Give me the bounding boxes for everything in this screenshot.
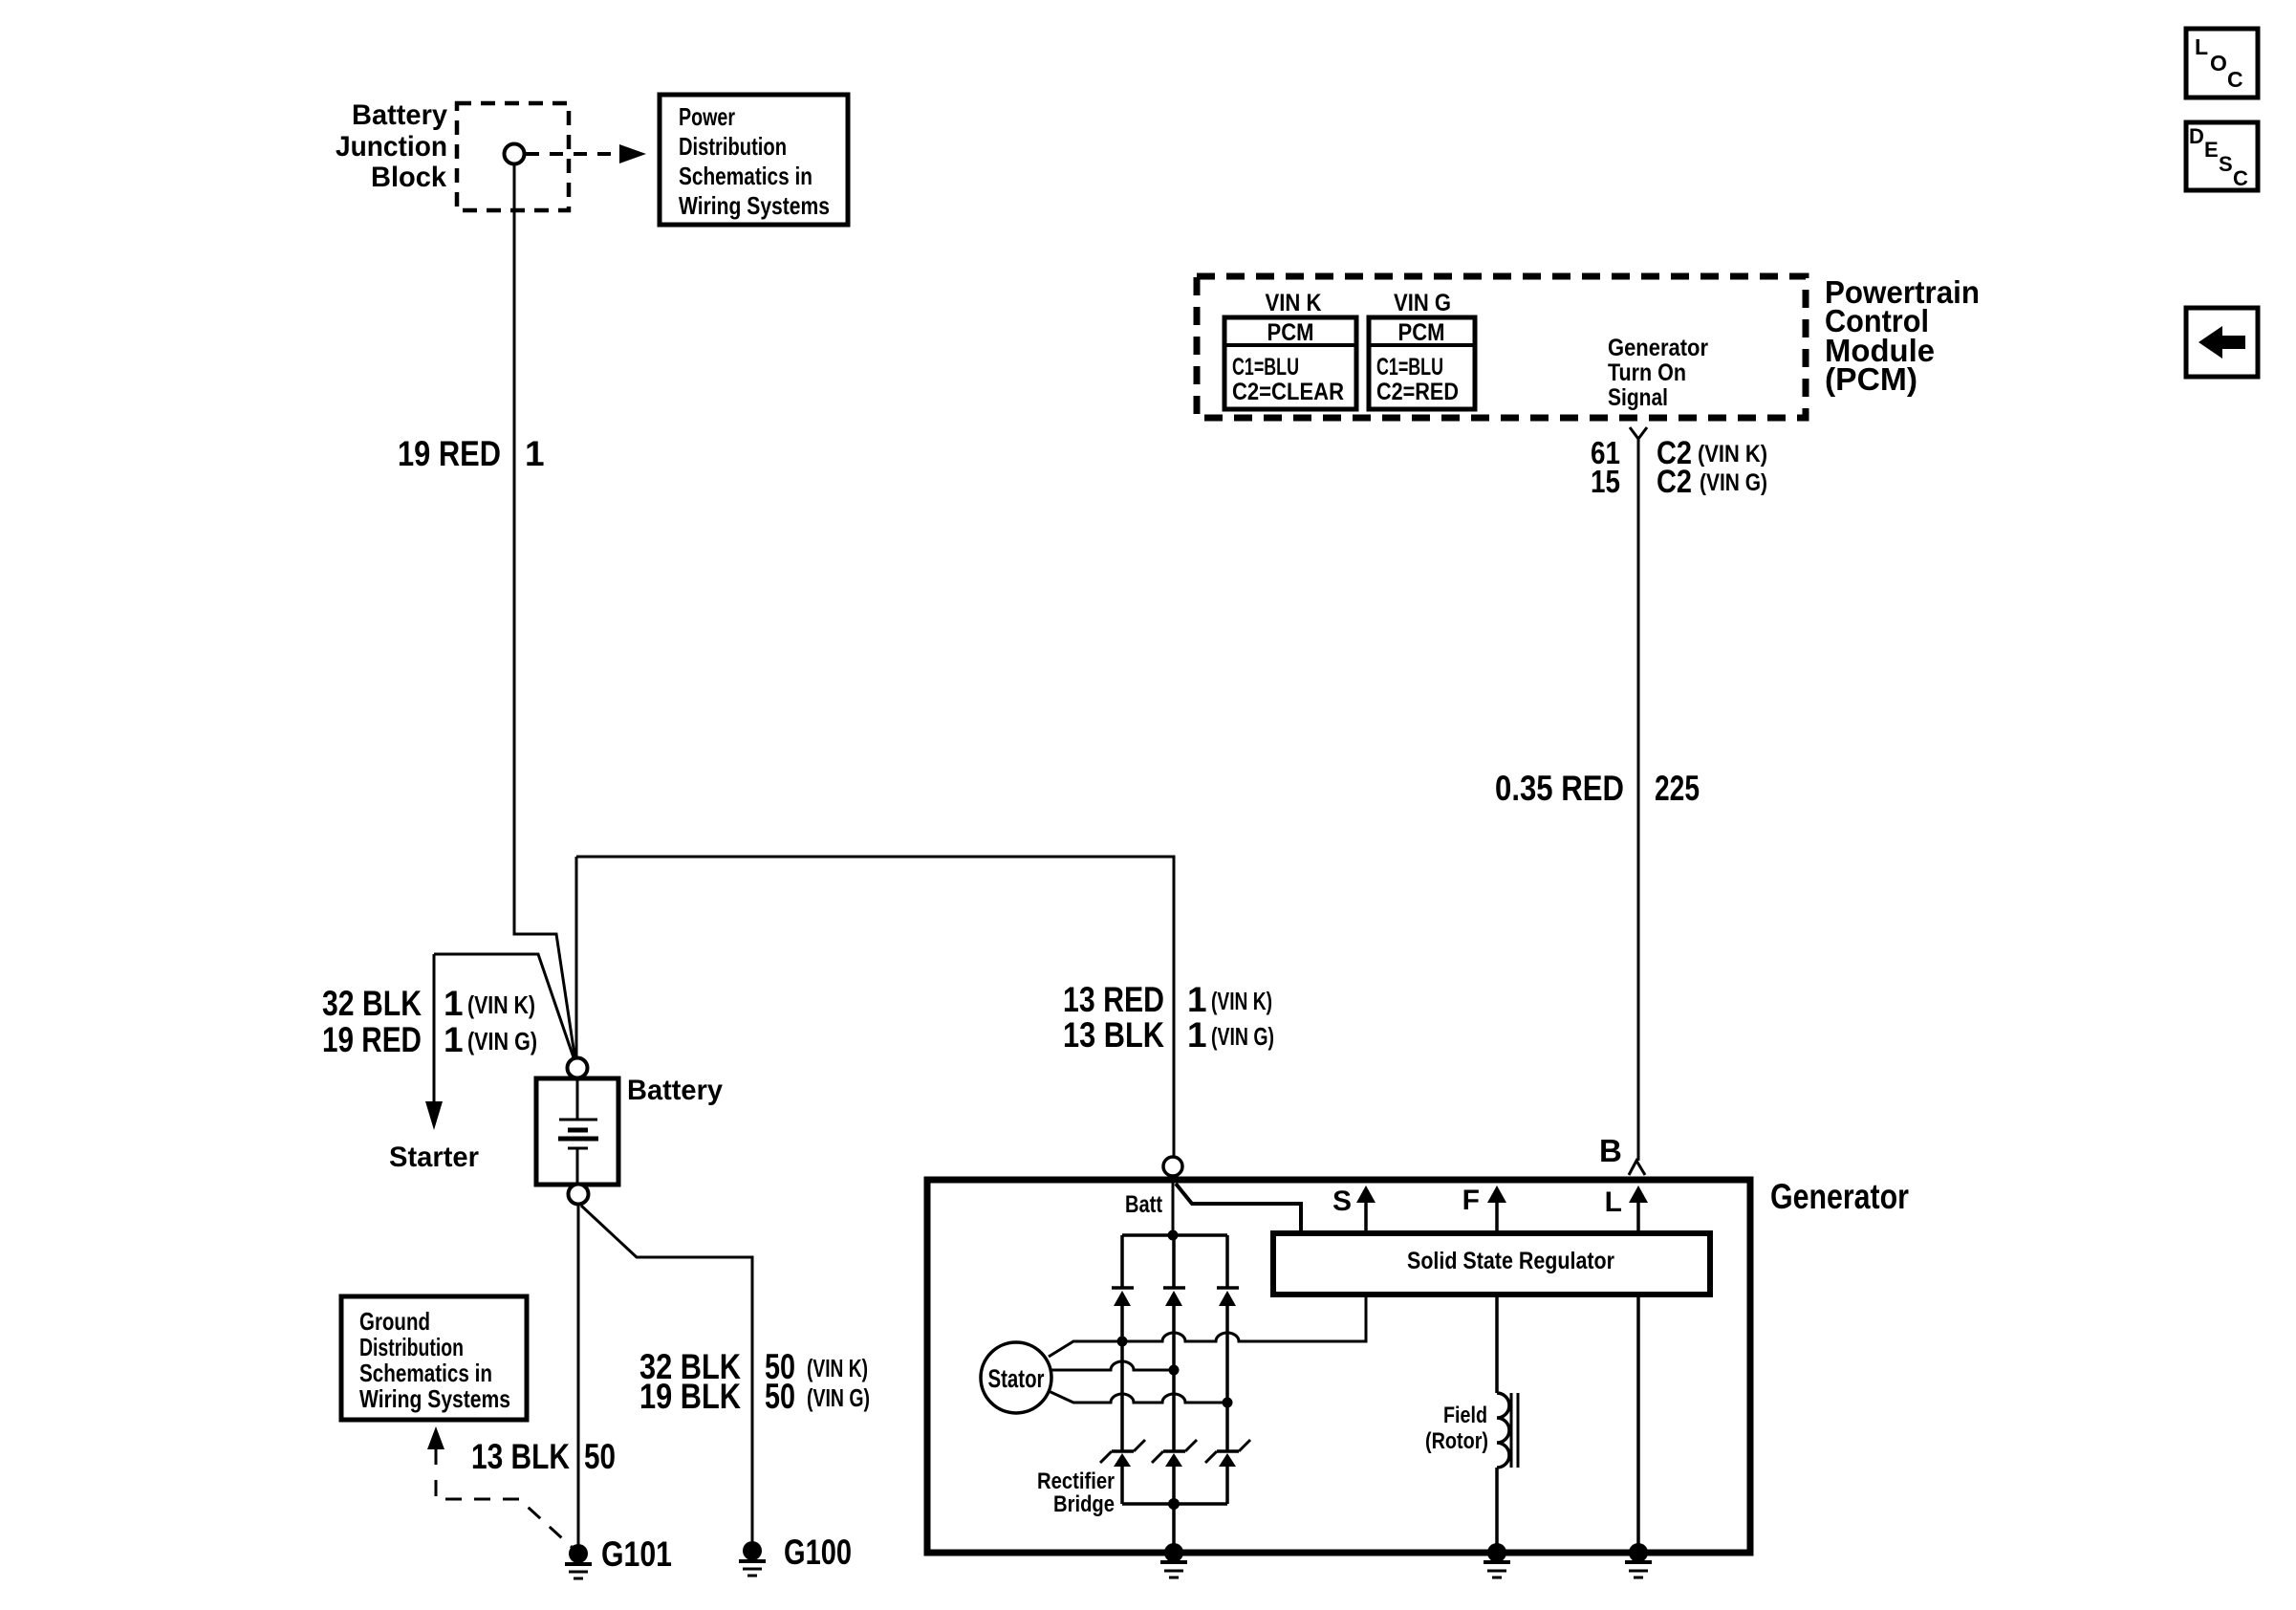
svg-text:(VIN K): (VIN K) bbox=[807, 1354, 868, 1382]
svg-text:19 RED: 19 RED bbox=[322, 1020, 422, 1059]
wire: stator phase B bbox=[1051, 1361, 1174, 1370]
wire: stator phase A bbox=[1049, 1295, 1366, 1357]
label: 0.35 RED 225 bbox=[1495, 769, 1700, 808]
svg-text:Solid State Regulator: Solid State Regulator bbox=[1407, 1248, 1614, 1274]
label: 32 BLK 1 (VIN K) bbox=[322, 984, 535, 1023]
svg-text:G101: G101 bbox=[601, 1534, 672, 1574]
svg-text:Wiring Systems: Wiring Systems bbox=[679, 191, 830, 220]
label: 13 BLK 50 bbox=[471, 1437, 616, 1476]
svg-text:1: 1 bbox=[1187, 980, 1207, 1019]
svg-text:Stator: Stator bbox=[988, 1364, 1045, 1393]
zener diode Z3 bbox=[1205, 1440, 1250, 1467]
svg-text:1: 1 bbox=[444, 984, 464, 1023]
diode D2 bbox=[1163, 1288, 1185, 1306]
icon: DESC bbox=[2186, 122, 2258, 190]
node: generator Batt terminal bbox=[1163, 1157, 1182, 1176]
svg-text:(VIN G): (VIN G) bbox=[1211, 1022, 1274, 1051]
label: Generator Turn On Signal bbox=[1608, 335, 1708, 411]
svg-text:D: D bbox=[2189, 124, 2204, 148]
svg-text:Turn On: Turn On bbox=[1608, 359, 1686, 386]
label bracket: battery cable codes bbox=[434, 954, 575, 1063]
wire: battery negative to G101 bbox=[577, 1205, 580, 1545]
svg-text:(VIN G): (VIN G) bbox=[1700, 469, 1767, 496]
svg-text:Starter: Starter bbox=[389, 1142, 479, 1173]
svg-text:S: S bbox=[1332, 1186, 1352, 1217]
svg-text:(VIN K): (VIN K) bbox=[467, 990, 535, 1019]
svg-text:Distribution: Distribution bbox=[679, 132, 787, 161]
svg-text:(Rotor): (Rotor) bbox=[1425, 1428, 1488, 1454]
svg-text:Battery: Battery bbox=[352, 99, 447, 131]
wire: stator phase C bbox=[1049, 1391, 1227, 1403]
dashed leader to power distribution note bbox=[526, 144, 646, 163]
dashed leader from G101 to ground distribution note (arrowhead) bbox=[427, 1426, 572, 1547]
wire: rectifier negative rail bbox=[1122, 1502, 1227, 1506]
svg-text:Signal: Signal bbox=[1608, 384, 1668, 411]
node: battery junction block stud bbox=[505, 144, 525, 164]
connector table: PCM VIN G bbox=[1369, 317, 1475, 409]
battery B1 bbox=[536, 1078, 618, 1185]
ground G101 bbox=[565, 1544, 592, 1578]
svg-text:Battery: Battery bbox=[627, 1075, 723, 1106]
svg-text:Generator: Generator bbox=[1770, 1177, 1909, 1216]
label: Rectifier Bridge bbox=[1037, 1469, 1115, 1517]
svg-text:32 BLK: 32 BLK bbox=[322, 984, 422, 1023]
wire: column 1 to phase A bbox=[1120, 1306, 1124, 1341]
wire: column 3 to negative rail bbox=[1225, 1467, 1229, 1504]
svg-text:C2: C2 bbox=[1657, 464, 1692, 500]
svg-text:C1=BLU: C1=BLU bbox=[1232, 354, 1299, 381]
icon: LOC bbox=[2186, 29, 2258, 98]
svg-text:(VIN K): (VIN K) bbox=[1698, 441, 1767, 468]
wire: 19 RED from junction block to battery bbox=[514, 163, 575, 1061]
label: 13 RED 1 (VIN K) bbox=[1063, 980, 1272, 1019]
svg-text:Junction: Junction bbox=[336, 131, 447, 163]
svg-text:F: F bbox=[1462, 1185, 1480, 1216]
wire: rectifier to generator case ground bbox=[1172, 1504, 1176, 1553]
wire: column 2 lower bbox=[1172, 1370, 1176, 1451]
label: 19 RED 1 bbox=[398, 434, 545, 473]
svg-text:Generator: Generator bbox=[1608, 335, 1708, 361]
svg-text:C: C bbox=[2227, 67, 2243, 92]
svg-text:1: 1 bbox=[1187, 1015, 1207, 1055]
label: 19 BLK 50 (VIN G) bbox=[639, 1377, 870, 1416]
wire: 0.35 RED generator turn on signal bbox=[1637, 439, 1640, 1161]
wire: column 2 to phase B bbox=[1172, 1306, 1176, 1370]
svg-text:B: B bbox=[1599, 1133, 1622, 1168]
svg-text:Schematics in: Schematics in bbox=[679, 162, 812, 190]
svg-text:C1=BLU: C1=BLU bbox=[1376, 354, 1443, 381]
svg-text:(VIN G): (VIN G) bbox=[467, 1027, 537, 1055]
svg-text:Field: Field bbox=[1443, 1403, 1487, 1428]
field rotor coil L1 bbox=[1497, 1393, 1518, 1468]
wire: rectifier column 2 upper bbox=[1172, 1235, 1176, 1288]
svg-text:C2=RED: C2=RED bbox=[1376, 379, 1459, 405]
S input arrow bbox=[1356, 1186, 1375, 1233]
svg-text:Wiring Systems: Wiring Systems bbox=[359, 1384, 510, 1413]
label: 13 BLK 1 (VIN G) bbox=[1063, 1015, 1274, 1055]
svg-text:(VIN K): (VIN K) bbox=[1211, 987, 1272, 1015]
note box: Ground Distribution Schematics in Wiring Systems bbox=[341, 1296, 527, 1420]
svg-text:O: O bbox=[2210, 51, 2227, 76]
L input arrow bbox=[1629, 1186, 1648, 1233]
svg-text:19 RED: 19 RED bbox=[398, 434, 501, 473]
svg-text:225: 225 bbox=[1655, 769, 1700, 808]
ground G100 bbox=[739, 1541, 766, 1576]
svg-text:13 RED: 13 RED bbox=[1063, 980, 1164, 1019]
ground: rectifier case bbox=[1160, 1543, 1187, 1577]
solid state regulator U1 bbox=[1273, 1233, 1710, 1295]
label: Battery Junction Block bbox=[336, 99, 447, 193]
wire: Batt feed into rectifier bbox=[1172, 1176, 1175, 1235]
svg-text:Distribution: Distribution bbox=[359, 1333, 464, 1361]
wire: field coil to ground bbox=[1495, 1468, 1499, 1553]
ground: regulator case bbox=[1625, 1543, 1652, 1577]
svg-text:1: 1 bbox=[525, 434, 545, 473]
note box: Power Distribution Schematics in Wiring Systems bbox=[660, 95, 848, 225]
powertrain control module PCM (dashed box) bbox=[1197, 276, 1806, 418]
node: phase A to column 1 bbox=[1117, 1337, 1128, 1347]
diode D1 bbox=[1112, 1288, 1134, 1306]
wire: battery positive drop bbox=[575, 857, 578, 1058]
svg-text:C: C bbox=[2233, 166, 2248, 190]
wire: regulator F output to field bbox=[1495, 1295, 1499, 1393]
node: rectifier positive rail junction bbox=[1168, 1230, 1179, 1241]
svg-text:Block: Block bbox=[371, 162, 446, 193]
wire: rectifier column 3 upper bbox=[1225, 1235, 1229, 1288]
svg-text:1: 1 bbox=[444, 1020, 464, 1059]
wire: rectifier column 1 upper bbox=[1120, 1235, 1124, 1288]
ground: field coil case bbox=[1484, 1543, 1510, 1577]
label: Field (Rotor) bbox=[1425, 1403, 1488, 1454]
pin label: 61 C2 (VIN K) bbox=[1591, 435, 1767, 471]
svg-text:VIN K: VIN K bbox=[1266, 290, 1322, 316]
wire: rectifier positive rail bbox=[1122, 1233, 1227, 1237]
label: 32 BLK 50 (VIN K) bbox=[639, 1347, 868, 1386]
svg-text:Ground: Ground bbox=[359, 1307, 430, 1336]
svg-text:S: S bbox=[2219, 152, 2233, 176]
wire: 13 RED battery to generator Batt bbox=[576, 857, 1174, 1157]
wire: column 3 lower bbox=[1225, 1403, 1229, 1451]
F input arrow bbox=[1487, 1186, 1506, 1233]
node: battery positive terminal bbox=[568, 1058, 588, 1078]
svg-text:Bridge: Bridge bbox=[1053, 1491, 1115, 1517]
svg-text:L: L bbox=[1605, 1186, 1622, 1218]
wire: battery negative to G100 bbox=[581, 1206, 752, 1542]
svg-text:19 BLK: 19 BLK bbox=[639, 1377, 741, 1416]
icon: back arrow bbox=[2186, 308, 2258, 377]
svg-text:50: 50 bbox=[584, 1437, 616, 1476]
wire: column 1 lower bbox=[1120, 1341, 1124, 1451]
connector: generator B terminal (chevron) bbox=[1629, 1161, 1645, 1175]
wire: column 1 to negative rail bbox=[1120, 1467, 1124, 1504]
svg-text:E: E bbox=[2204, 138, 2219, 162]
svg-text:Rectifier: Rectifier bbox=[1037, 1469, 1115, 1494]
svg-text:G100: G100 bbox=[784, 1533, 852, 1572]
label: 19 RED 1 (VIN G) bbox=[322, 1020, 537, 1059]
wire: column 2 to negative rail bbox=[1172, 1467, 1176, 1504]
stator bbox=[981, 1342, 1051, 1413]
svg-text:(PCM): (PCM) bbox=[1825, 361, 1917, 397]
svg-text:50: 50 bbox=[765, 1377, 795, 1416]
connector: PCM C2 pin (Y symbol) bbox=[1630, 427, 1647, 439]
node: phase B to column 2 bbox=[1169, 1365, 1180, 1376]
wire: regulator L to ground bbox=[1636, 1295, 1640, 1553]
pin label: 15 C2 (VIN G) bbox=[1591, 464, 1767, 500]
svg-text:L: L bbox=[2195, 34, 2208, 59]
svg-text:(VIN G): (VIN G) bbox=[807, 1383, 870, 1412]
svg-text:PCM: PCM bbox=[1398, 319, 1445, 346]
wire arrow to starter bbox=[425, 954, 443, 1130]
diode D3 bbox=[1217, 1288, 1239, 1306]
svg-text:Power: Power bbox=[679, 102, 735, 131]
wire: Batt to regulator bbox=[1176, 1184, 1301, 1233]
svg-text:15: 15 bbox=[1591, 464, 1620, 499]
node: phase C to column 3 bbox=[1223, 1398, 1233, 1408]
node: negative rail junction bbox=[1168, 1498, 1180, 1510]
svg-text:Schematics in: Schematics in bbox=[359, 1359, 492, 1387]
svg-text:PCM: PCM bbox=[1267, 319, 1314, 346]
wire: column 3 to phase C bbox=[1225, 1306, 1229, 1403]
zener diode Z1 bbox=[1100, 1440, 1145, 1467]
zener diode Z2 bbox=[1152, 1440, 1197, 1467]
battery junction block (dashed box) bbox=[457, 103, 569, 210]
node: battery negative terminal bbox=[569, 1185, 589, 1205]
generator box bbox=[927, 1180, 1750, 1553]
svg-text:C2=CLEAR: C2=CLEAR bbox=[1232, 379, 1344, 405]
svg-text:13 BLK: 13 BLK bbox=[1063, 1015, 1164, 1055]
svg-text:Batt: Batt bbox=[1125, 1191, 1163, 1218]
svg-text:13 BLK: 13 BLK bbox=[471, 1437, 570, 1476]
connector table: PCM VIN K bbox=[1224, 317, 1356, 409]
label: Powertrain Control Module (PCM) bbox=[1825, 274, 1980, 397]
svg-text:0.35 RED: 0.35 RED bbox=[1495, 769, 1624, 808]
svg-text:VIN G: VIN G bbox=[1394, 290, 1451, 316]
